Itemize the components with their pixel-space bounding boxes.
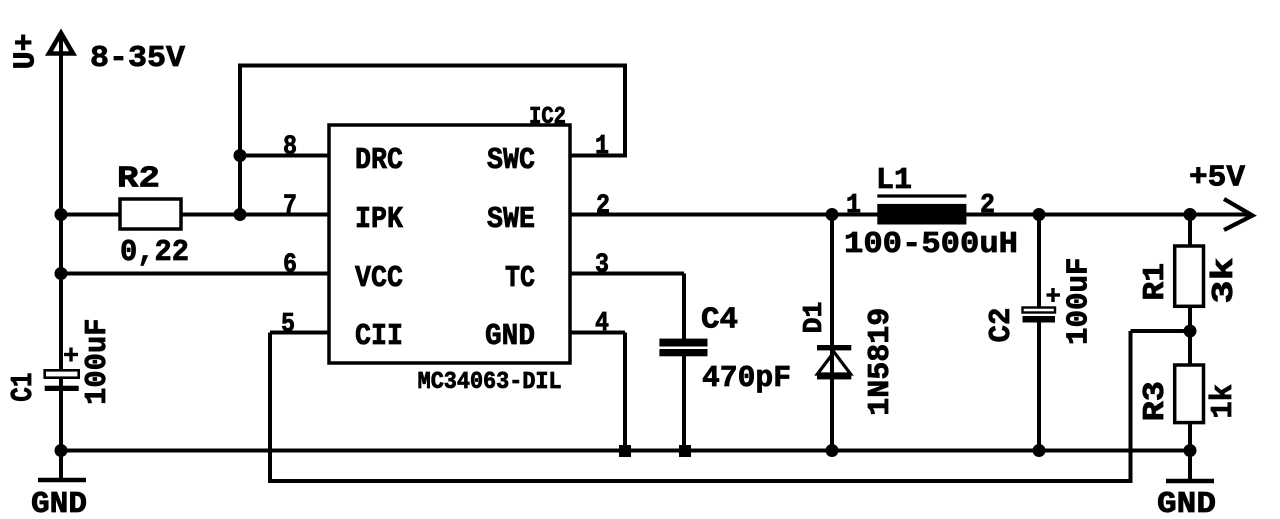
ground rail	[61, 449, 1190, 453]
junction D1 top	[826, 208, 839, 221]
junction C2 bottom	[1033, 444, 1046, 457]
ground symbol left	[59, 451, 63, 481]
wire top loop right vertical	[623, 66, 627, 156]
svg-text:GND: GND	[31, 487, 87, 519]
svg-text:MC34063-DIL: MC34063-DIL	[418, 369, 562, 396]
svg-text:R1: R1	[1138, 263, 1173, 301]
inductor L1	[877, 204, 966, 225]
svg-text:C4: C4	[701, 303, 738, 338]
junction C1 bottom	[55, 444, 68, 457]
wire feedback bottom horizontal	[268, 479, 1133, 483]
svg-text:IC2: IC2	[529, 104, 566, 131]
svg-text:1: 1	[846, 191, 861, 221]
wire C2 bottom lead	[1037, 322, 1041, 451]
junction on rail at R2	[55, 208, 68, 221]
wire R1 top lead	[1188, 215, 1192, 247]
wire pin8 vertical link	[238, 66, 242, 215]
svg-text:1N5819: 1N5819	[863, 308, 898, 416]
svg-text:U+: U+	[9, 33, 44, 69]
wire pin4 stub	[569, 331, 625, 335]
svg-text:D1: D1	[800, 302, 830, 334]
svg-text:100-500uH: 100-500uH	[844, 227, 1018, 262]
svg-text:+5V: +5V	[1189, 161, 1245, 196]
svg-text:3: 3	[595, 251, 609, 281]
svg-text:470pF: 470pF	[702, 361, 791, 396]
junction D1 bottom	[826, 444, 839, 457]
junction pin4 ground (square)	[619, 445, 631, 457]
junction divider mid	[1184, 325, 1197, 338]
svg-text:SWC: SWC	[487, 143, 535, 178]
svg-text:2: 2	[596, 192, 610, 222]
svg-text:GND: GND	[485, 319, 535, 354]
junction pin8	[234, 149, 247, 162]
junction C4 ground (square)	[679, 445, 691, 457]
diode D1 vertical lead	[830, 215, 834, 451]
svg-text:VCC: VCC	[355, 261, 403, 296]
svg-text:GND: GND	[1157, 487, 1216, 519]
svg-text:1: 1	[595, 132, 609, 162]
wire feedback to divider	[1131, 329, 1191, 333]
svg-text:7: 7	[283, 192, 297, 222]
wire pin6 (VCC)	[61, 272, 329, 276]
junction pin6 on rail	[55, 267, 68, 280]
supply arrow V+	[49, 33, 73, 54]
svg-text:TC: TC	[505, 261, 535, 296]
svg-text:0,22: 0,22	[120, 235, 189, 270]
svg-text:C1: C1	[6, 373, 41, 402]
junction R3 bottom	[1184, 444, 1197, 457]
svg-text:8: 8	[283, 133, 297, 163]
wire pin5 stub	[270, 331, 329, 335]
wire pin4 down to ground	[623, 333, 627, 452]
wire R1-R3 link	[1188, 306, 1192, 365]
svg-text:5: 5	[281, 310, 295, 340]
output arrow +5V	[1224, 199, 1253, 230]
svg-text:100uF: 100uF	[80, 319, 115, 405]
svg-text:2: 2	[980, 191, 995, 221]
junction R1 top	[1184, 208, 1197, 221]
capacitor C1	[45, 370, 79, 377]
wire C4 bottom lead	[682, 355, 686, 451]
wire C2 top lead	[1037, 215, 1041, 309]
capacitor C4	[659, 339, 707, 347]
node V+ input rail	[59, 38, 63, 451]
wire pin2 output net	[569, 213, 1250, 217]
svg-text:3k: 3k	[1207, 258, 1242, 304]
wire pin5 vertical	[268, 333, 272, 482]
op-amp / converter IC2 MC34063 box	[329, 125, 570, 363]
C1 plus sign	[64, 353, 78, 356]
svg-text:8-35V: 8-35V	[90, 41, 185, 76]
wire feedback right vertical	[1129, 331, 1133, 481]
svg-text:SWE: SWE	[487, 202, 535, 237]
junction C2 top	[1033, 208, 1046, 221]
svg-text:R3: R3	[1138, 381, 1173, 421]
svg-text:L1: L1	[876, 163, 912, 198]
svg-text:DRC: DRC	[355, 143, 403, 178]
resistor R1	[1175, 246, 1204, 306]
svg-text:6: 6	[283, 251, 297, 281]
wire pin1	[569, 154, 627, 158]
svg-text:C2: C2	[984, 308, 1019, 343]
wire R3 bottom lead	[1188, 423, 1192, 480]
C2 plus sign	[1047, 293, 1061, 296]
wire pin8 horizontal	[240, 154, 329, 158]
resistor R2	[120, 199, 181, 229]
svg-text:R2: R2	[117, 162, 160, 197]
svg-text:100uF: 100uF	[1062, 258, 1097, 346]
resistor R3	[1175, 365, 1204, 423]
wire top loop horizontal	[238, 64, 627, 68]
ground symbol right	[1166, 479, 1214, 484]
svg-text:1k: 1k	[1206, 384, 1241, 419]
wire R2 row (pin 7 net)	[61, 213, 120, 217]
junction pin7	[234, 208, 247, 221]
capacitor C2	[1023, 308, 1056, 313]
wire C4 top lead	[682, 274, 686, 341]
wire pin3 (TC)	[569, 272, 684, 276]
svg-text:IPK: IPK	[355, 202, 403, 237]
svg-text:CII: CII	[355, 319, 403, 354]
diode D1 (schottky)	[817, 345, 851, 350]
